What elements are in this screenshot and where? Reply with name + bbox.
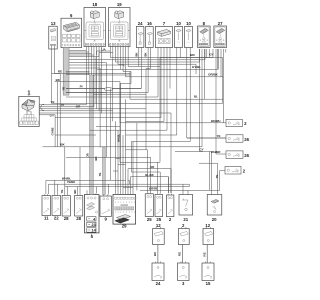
grid v g xyxy=(69,63,106,158)
svg-text:22: 22 xyxy=(54,216,59,221)
wire 18 pin f xyxy=(39,47,99,111)
crossing arc at 1 xyxy=(41,104,44,110)
connector 1 xyxy=(19,96,39,126)
icon in 27 xyxy=(215,27,226,47)
wire 29 v7 xyxy=(130,177,132,193)
connector 16 xyxy=(146,27,154,48)
svg-text:YE: YE xyxy=(215,175,219,179)
svg-text:85: 85 xyxy=(118,40,120,42)
outline rect right2 xyxy=(160,58,223,104)
pin row of 19 xyxy=(110,44,129,45)
horn 26 lower xyxy=(226,151,243,158)
relay circuit in 19 xyxy=(111,22,129,40)
connector 24 xyxy=(136,27,144,48)
wire 12b-15 xyxy=(206,245,208,264)
wire YE/BK run xyxy=(49,183,190,185)
svg-text:GY: GY xyxy=(209,52,213,56)
wire drop 28a2 xyxy=(67,187,69,195)
svg-text:BK: BK xyxy=(144,52,148,56)
relay icon in 18 xyxy=(90,11,99,19)
wire GY to 20 xyxy=(175,151,212,153)
harness band center xyxy=(90,75,94,195)
switch 25b xyxy=(155,195,163,217)
wire 25b drop1 xyxy=(156,162,158,193)
wire 18 pin e xyxy=(39,47,96,109)
outline rect right xyxy=(95,58,97,104)
wire 18 pin d xyxy=(39,47,94,107)
wire RE horizontal xyxy=(52,73,61,75)
switch 25a xyxy=(145,194,153,217)
svg-text:BK: BK xyxy=(73,189,77,193)
stub 8 pin5 xyxy=(208,49,210,58)
wire 19 pin g xyxy=(126,47,223,77)
switch 11 xyxy=(42,196,51,216)
svg-text:25: 25 xyxy=(147,217,152,222)
svg-text:28: 28 xyxy=(76,216,81,221)
svg-text:RE: RE xyxy=(178,252,182,256)
grid v b xyxy=(136,123,138,191)
wire 25a drop1 xyxy=(147,150,149,193)
wire 19 pin b xyxy=(113,47,205,60)
wire 16 pin1 xyxy=(66,48,148,93)
svg-text:OR/BK: OR/BK xyxy=(208,73,219,77)
wire 21 drop2 xyxy=(187,190,189,193)
icon in 10 xyxy=(176,29,181,44)
wire 18 pin b xyxy=(88,47,90,76)
sub connector 14 in 5 xyxy=(87,228,96,232)
switch 28b xyxy=(75,196,83,217)
svg-text:BL/BK: BL/BK xyxy=(145,173,154,177)
wire 24 pin2 xyxy=(66,48,141,89)
wire 19 pin e xyxy=(121,47,218,70)
wire 8 pin4 xyxy=(206,49,208,58)
svg-text:10: 10 xyxy=(186,21,191,26)
switch 21 xyxy=(179,195,193,216)
wire 26a run xyxy=(187,137,226,139)
svg-text:13: 13 xyxy=(51,21,56,26)
wire 7 pin3 xyxy=(126,48,165,122)
svg-text:26: 26 xyxy=(244,153,249,158)
connector 10 xyxy=(175,27,183,48)
icon in 7 xyxy=(158,29,171,36)
jog 29 a xyxy=(116,158,121,160)
pin row of 18 xyxy=(85,44,104,45)
wire 18 pin g xyxy=(39,47,101,114)
svg-text:VI: VI xyxy=(61,103,64,107)
wire WH/BL run xyxy=(46,179,126,181)
svg-text:16: 16 xyxy=(147,21,152,26)
svg-text:YE: YE xyxy=(98,173,102,177)
wire GY/BL run xyxy=(97,69,121,71)
wire drop 28a1 xyxy=(64,147,66,194)
wire 19 pin d xyxy=(118,47,196,75)
icon in 8 xyxy=(199,27,210,47)
wire 18 pin a xyxy=(39,47,86,105)
wire left v2 xyxy=(59,74,61,147)
svg-text:RE: RE xyxy=(58,70,62,74)
wire 29 v5 xyxy=(125,99,127,193)
wire OR mid run xyxy=(128,169,171,193)
svg-text:YE: YE xyxy=(50,100,54,104)
svg-text:RE: RE xyxy=(203,252,207,256)
wire h1498 xyxy=(126,149,148,151)
wire 27 pin1 xyxy=(216,49,226,154)
wire 2c drop2 xyxy=(170,169,172,193)
grid v e xyxy=(209,152,211,191)
svg-text:GY/BL: GY/BL xyxy=(192,65,201,69)
svg-text:21: 21 xyxy=(183,217,188,222)
svg-text:BK: BK xyxy=(134,52,138,56)
svg-text:YE: YE xyxy=(216,134,220,138)
wire 19 pin h xyxy=(128,47,160,67)
grid v i xyxy=(69,60,113,122)
relay icon in 19 xyxy=(115,11,124,19)
svg-text:GY: GY xyxy=(199,148,203,152)
grid h h xyxy=(96,126,120,128)
wire BRRE run xyxy=(140,189,220,191)
wire h1623 xyxy=(120,161,160,163)
svg-text:86: 86 xyxy=(94,23,96,25)
svg-text:29: 29 xyxy=(122,224,127,229)
wire 20 drop2 xyxy=(217,163,219,193)
svg-text:10: 10 xyxy=(176,21,181,26)
svg-text:YE: YE xyxy=(61,87,65,91)
svg-text:O: O xyxy=(178,42,180,44)
tiny junction mark xyxy=(128,181,130,185)
wire horn2b xyxy=(220,171,225,191)
wire v ext f xyxy=(99,110,113,112)
wire GY from 1 xyxy=(39,115,55,147)
wire left v1 xyxy=(57,82,59,147)
relay box 18 xyxy=(84,8,106,47)
ground unit 15 xyxy=(202,263,214,281)
wire 29 v6 xyxy=(127,169,129,193)
svg-text:15: 15 xyxy=(206,281,211,286)
svg-text:27: 27 xyxy=(218,21,223,26)
wire 10b pin1 xyxy=(187,48,226,139)
wire band triple b xyxy=(66,72,90,74)
svg-text:O: O xyxy=(188,42,190,44)
wire 29 v2 xyxy=(117,130,119,193)
ground unit 3 xyxy=(178,263,190,281)
wire drop 11a xyxy=(45,180,47,194)
wire 19 pin c xyxy=(115,47,199,63)
wire PI run xyxy=(66,88,141,90)
wire band triple c xyxy=(66,74,90,76)
wire 7 pin5 xyxy=(169,48,171,89)
harness band right-of-center xyxy=(103,148,106,195)
junction unit 5 xyxy=(85,195,100,233)
horn 2 right-top xyxy=(226,119,242,126)
icon in 24 xyxy=(138,29,143,44)
jog 29 b xyxy=(118,164,126,166)
switch 20 xyxy=(207,195,222,216)
wire 25a drop2 xyxy=(150,157,152,192)
grid v 160 xyxy=(159,58,161,163)
wire 18 pin c xyxy=(90,47,92,76)
wire band triple a xyxy=(66,71,90,73)
connector 29 xyxy=(113,195,136,225)
switch 28a xyxy=(62,196,70,217)
relay circuit in 18 xyxy=(86,22,104,40)
grid h g xyxy=(66,92,106,94)
sensor 27 xyxy=(214,26,227,48)
sensor 8 xyxy=(198,26,211,48)
stub 27 pin5 xyxy=(225,49,227,53)
wire BLBK run xyxy=(131,177,169,193)
wire 20 drop1 xyxy=(211,152,213,194)
stub 9 a xyxy=(108,184,110,194)
wire h172 xyxy=(131,171,160,173)
wire 10a pin1 xyxy=(126,48,177,136)
svg-text:WH/BR: WH/BR xyxy=(211,150,220,154)
icon inside 6 xyxy=(64,22,80,32)
svg-text:28: 28 xyxy=(64,216,69,221)
wire 8 pin3 xyxy=(203,49,205,99)
svg-text:24: 24 xyxy=(156,281,161,286)
grid v a xyxy=(130,142,132,173)
svg-text:BK/WH: BK/WH xyxy=(211,119,220,123)
wire drop 28b1 xyxy=(76,187,78,195)
svg-text:26: 26 xyxy=(244,137,249,142)
wire 24 pin1 xyxy=(138,48,140,67)
harness band from 6 xyxy=(63,48,69,96)
wire center drop 1 xyxy=(93,72,130,76)
wire 27 pin2 xyxy=(218,49,220,70)
svg-text:23: 23 xyxy=(91,223,95,227)
switch 22 xyxy=(52,196,61,216)
wire 19 pin f xyxy=(120,47,131,84)
svg-text:BL: BL xyxy=(194,95,198,99)
wire 8 pin1 xyxy=(200,49,203,152)
svg-text:GY/RE: GY/RE xyxy=(51,127,55,135)
wire 7 pin2 xyxy=(55,48,161,118)
wire 21 drop1 xyxy=(182,184,184,193)
wire 29 v4 xyxy=(122,135,124,193)
svg-text:86: 86 xyxy=(118,23,120,25)
wire 18 stair 4 xyxy=(69,54,94,56)
wire 12a-24 xyxy=(157,245,159,264)
wire y113 ext xyxy=(102,113,171,193)
grid h i xyxy=(55,134,96,136)
grid h f xyxy=(93,93,146,95)
icon in 1 xyxy=(22,100,35,112)
wire 25b drop2 xyxy=(159,172,161,193)
svg-text:85: 85 xyxy=(94,40,96,42)
svg-text:YE: YE xyxy=(60,190,64,194)
wire 2c drop1 xyxy=(168,177,170,193)
wire drop 22a xyxy=(54,180,56,194)
wire OR ext xyxy=(97,108,147,110)
wire 7 pin1 xyxy=(66,48,158,98)
svg-text:19: 19 xyxy=(117,2,122,7)
svg-text:PI: PI xyxy=(80,85,83,89)
icon inside 13 xyxy=(50,29,56,41)
wire 28 link xyxy=(65,186,190,188)
wire 18 stair 2 xyxy=(69,51,89,53)
connector 10 xyxy=(185,27,193,48)
wire BK horizontal xyxy=(55,82,227,123)
switch 9 xyxy=(100,196,111,217)
svg-text:18: 18 xyxy=(92,2,97,7)
stub 5 b xyxy=(96,187,98,194)
fusebox 6 xyxy=(61,18,82,47)
wire 27 pin4 xyxy=(223,49,225,123)
wire h1573 xyxy=(66,156,151,158)
svg-text:GY: GY xyxy=(50,114,54,118)
ground unit 24 xyxy=(152,263,164,281)
grid v c xyxy=(145,94,147,150)
horn 26 upper xyxy=(226,135,243,142)
wire 16 pin2 xyxy=(146,48,151,95)
wire 7 pin4 xyxy=(90,48,167,131)
icon in 10 xyxy=(186,29,191,44)
grid h e xyxy=(119,84,121,163)
wire drop 22b xyxy=(56,184,58,194)
grid v h xyxy=(110,89,112,181)
jog 29 c xyxy=(113,170,118,172)
wire band to h xyxy=(69,65,124,67)
horn 2 right-bottom xyxy=(225,166,241,174)
wire 29 v3 xyxy=(120,84,122,194)
connector 13 xyxy=(49,26,57,49)
wire 27 pin3 xyxy=(220,49,222,77)
stub 5 a xyxy=(86,190,88,193)
wire 19 pin a xyxy=(110,47,213,58)
wire drop 11b xyxy=(48,184,50,194)
wire 13 pin2 down xyxy=(55,49,224,99)
control unit 7 xyxy=(155,27,172,48)
svg-text:OR: OR xyxy=(85,153,89,157)
svg-text:12: 12 xyxy=(156,223,161,228)
wire 2d-3 xyxy=(181,245,183,264)
switch 2c xyxy=(166,195,174,217)
wire 13 pin1 down xyxy=(52,49,223,104)
wire 19 stair 1 xyxy=(97,51,111,55)
grid v d xyxy=(188,184,190,186)
svg-text:20: 20 xyxy=(212,217,217,222)
wire 10a pin2 xyxy=(179,48,181,58)
sub connector 23 in 5 xyxy=(87,222,96,226)
wire 18 stair 3 xyxy=(69,53,91,55)
relay box 19 xyxy=(109,8,131,47)
wire 29 v8 xyxy=(132,142,134,194)
sub connector 4 in 5 xyxy=(87,217,96,221)
wire 29 v1 xyxy=(115,121,117,193)
wire 19 stair 2 xyxy=(69,53,113,57)
wire 8 pin2 xyxy=(43,49,203,147)
svg-text:25: 25 xyxy=(156,217,161,222)
svg-text:11: 11 xyxy=(44,216,49,221)
svg-text:24: 24 xyxy=(138,21,143,26)
wire 10b pin2 xyxy=(131,48,190,142)
wire 18 stair 1 xyxy=(69,50,86,52)
icon in 16 xyxy=(147,29,152,44)
wire corner to 20 xyxy=(199,162,218,164)
jog 29 d xyxy=(123,187,133,189)
svg-text:YE/BK: YE/BK xyxy=(67,180,76,184)
inline connector oval xyxy=(104,88,112,91)
wire drop 28b2 xyxy=(79,147,81,194)
grid v f xyxy=(69,68,100,148)
